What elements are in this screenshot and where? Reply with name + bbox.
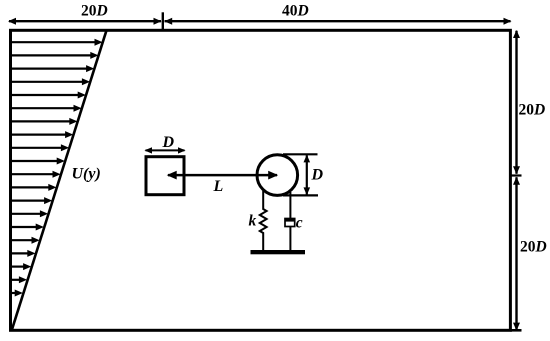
velocity arrow 6	[11, 105, 82, 112]
dimension line 40D (top)	[164, 18, 511, 25]
velocity arrow 8	[11, 131, 73, 138]
velocity arrow 9	[11, 144, 69, 151]
svg-text:20D: 20D	[81, 3, 108, 20]
velocity arrow 19	[11, 276, 27, 283]
velocity arrow 1	[11, 39, 103, 46]
right dimension line upper 20D	[513, 30, 520, 174]
mid tick (right)	[511, 174, 522, 176]
velocity arrows	[11, 39, 103, 297]
velocity arrow 17	[11, 250, 36, 257]
velocity arrow 4	[11, 78, 90, 85]
damper c rod lower	[289, 227, 291, 251]
tick at 20D/40D boundary	[162, 12, 164, 30]
domain boundary	[11, 30, 511, 330]
velocity arrow 10	[11, 158, 65, 165]
velocity arrow 18	[11, 263, 31, 270]
dimension D of circle: bottom extension line	[283, 194, 318, 196]
dimension D of circle: vertical double arrow	[304, 155, 311, 196]
svg-text:L: L	[213, 178, 224, 195]
svg-text:40D: 40D	[282, 3, 309, 20]
dimension line 20D (top)	[8, 18, 162, 25]
svg-text:20D: 20D	[520, 239, 547, 256]
extension line bottom-right	[510, 329, 522, 332]
dimension D of circle: top extension line	[283, 153, 318, 155]
right dimension line lower 20D	[513, 177, 520, 331]
svg-text:D: D	[162, 134, 175, 151]
damper c rod upper	[289, 192, 291, 219]
square cylinder	[146, 157, 184, 195]
velocity arrow 11	[11, 171, 61, 178]
dimension D over square	[144, 147, 185, 153]
svg-text:U(y): U(y)	[72, 165, 101, 182]
inlet velocity profile envelope	[12, 30, 107, 330]
svg-text:D: D	[311, 167, 324, 184]
velocity arrow 2	[11, 52, 99, 59]
velocity arrow 3	[11, 65, 94, 72]
damper c cylinder	[285, 218, 295, 226]
circular cylinder	[257, 155, 298, 196]
ground	[251, 250, 306, 254]
velocity arrow 20	[11, 290, 23, 297]
velocity arrow 15	[11, 224, 44, 231]
velocity arrow 13	[11, 197, 52, 204]
velocity arrow 7	[11, 118, 78, 125]
spacing arrow L	[167, 171, 279, 180]
velocity arrow 5	[11, 92, 86, 99]
velocity arrow 16	[11, 237, 40, 244]
velocity arrow 14	[11, 210, 48, 217]
svg-text:k: k	[249, 213, 257, 230]
svg-text:20D: 20D	[519, 101, 546, 118]
velocity arrow 12	[11, 184, 57, 191]
svg-text:c: c	[296, 215, 303, 232]
spring k	[260, 191, 267, 250]
